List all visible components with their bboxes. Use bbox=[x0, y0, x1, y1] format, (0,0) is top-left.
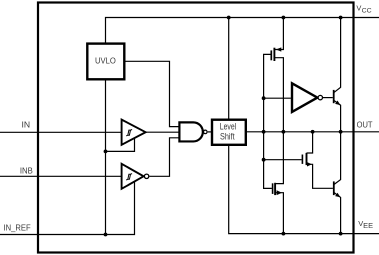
node OUT / gate net bbox=[262, 130, 266, 134]
wire VCC net rail bbox=[106, 18, 379, 44]
wire U2 output to Q1 base bbox=[323, 97, 333, 99]
svg-text:EE: EE bbox=[363, 223, 373, 230]
svg-text:CC: CC bbox=[362, 7, 372, 14]
node gate net / U2 input bbox=[262, 96, 266, 100]
NPN Q1 bbox=[334, 18, 341, 132]
wire gate net to M3 gate bbox=[264, 159, 302, 161]
NPN Q2 bbox=[334, 132, 341, 234]
svg-text:IN: IN bbox=[22, 121, 31, 130]
NMOS M3 bbox=[302, 132, 333, 189]
node IN_REF / UVLO bbox=[104, 233, 108, 237]
wire UVLO bottom to IN_REF net bbox=[105, 79, 107, 234]
node VCC / Q1 collector bbox=[339, 16, 343, 20]
node gate net / M3 gate bbox=[262, 158, 266, 162]
node OUT / M3 drain bbox=[311, 130, 315, 134]
wire Level Shift top to VCC bbox=[228, 18, 230, 120]
wire OUT net rail bbox=[246, 131, 379, 133]
svg-text:OUT: OUT bbox=[357, 121, 373, 130]
inverter U2 bbox=[292, 83, 333, 112]
svg-text:Level: Level bbox=[220, 121, 236, 131]
wire IN input line bbox=[0, 131, 122, 133]
node VEE / M2 source bbox=[282, 232, 286, 236]
wire Level Shift bottom to VEE rail bbox=[229, 145, 379, 234]
svg-text:Shift: Shift bbox=[220, 131, 235, 141]
wire IN_REF input line to buffer B2 reference bbox=[0, 182, 135, 235]
wire INB input line bbox=[0, 175, 122, 177]
svg-text:IN_REF: IN_REF bbox=[4, 223, 31, 232]
node VEE / Q2 emitter bbox=[339, 232, 343, 236]
svg-text:V: V bbox=[356, 3, 361, 12]
NAND gate G1 bbox=[179, 122, 207, 141]
wire UVLO output to NAND top input bbox=[124, 61, 179, 126]
node OUT / M1 M2 drains bbox=[282, 130, 286, 134]
node UVLO / B1 reference bbox=[104, 150, 108, 154]
node VCC / M1 source bbox=[282, 16, 286, 20]
wire reference branch to buffer B1 bbox=[106, 138, 135, 151]
wire buffer B1 output to NAND middle input bbox=[146, 131, 180, 133]
NMOS M2 bbox=[273, 132, 284, 234]
svg-text:UVLO: UVLO bbox=[95, 57, 116, 66]
node VCC / Level Shift bbox=[227, 16, 231, 20]
PMOS M1 bbox=[271, 18, 283, 132]
UVLO block bbox=[87, 44, 124, 80]
wire buffer B2 output to NAND bottom input bbox=[149, 138, 179, 177]
wire NAND output to Level Shift bbox=[208, 131, 212, 133]
schmitt buffer B1 (IN) bbox=[122, 120, 146, 145]
wire gate net to inverter U2 input bbox=[264, 97, 291, 99]
schmitt inverter B2 (INB) bbox=[122, 164, 149, 189]
svg-text:INB: INB bbox=[20, 167, 33, 176]
Level Shift block bbox=[212, 120, 246, 145]
wire OUT feedback gate net vertical bbox=[264, 54, 272, 188]
node OUT / Q1 emitter Q2 collector bbox=[339, 130, 343, 134]
